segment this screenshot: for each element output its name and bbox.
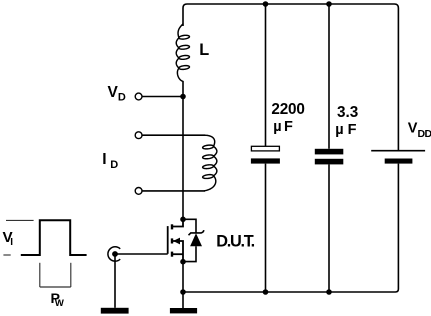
- waveform VI baseline stub: [3, 254, 10, 256]
- wire VD: [142, 96, 183, 98]
- svg-text:L: L: [199, 41, 209, 59]
- waveform VI high-level reference: [6, 219, 34, 221]
- ground GND2 (source): [170, 308, 197, 313]
- pulse width tick right: [70, 263, 72, 287]
- transistor Q1 D.U.T. (power MOSFET): [168, 219, 183, 261]
- wire gate: [115, 253, 168, 255]
- wire source to bottom bus: [182, 262, 184, 292]
- node source: [180, 259, 186, 265]
- inductor L: [176, 24, 189, 82]
- wire ground stub (source): [182, 292, 184, 308]
- node bottom-left junction: [180, 289, 186, 295]
- terminal ID bottom: [135, 188, 142, 195]
- node drain: [180, 217, 186, 223]
- node C2 top: [326, 1, 332, 7]
- svg-text:VI: VI: [3, 229, 14, 248]
- svg-text:PW: PW: [51, 291, 64, 309]
- svg-text:VD: VD: [108, 84, 126, 104]
- wire bottom bus: [183, 286, 398, 292]
- current sense coil (ID pickup): [203, 135, 217, 191]
- svg-text:VDD: VDD: [408, 120, 431, 140]
- body diode D1 (zener-style): [183, 219, 204, 261]
- ground GND1 (generator): [101, 308, 129, 314]
- wire drain branch: [182, 81, 184, 217]
- svg-text:D.U.T.: D.U.T.: [216, 232, 255, 250]
- wire ID top: [142, 134, 205, 136]
- wire top bus: [183, 4, 398, 150]
- svg-text:3.3: 3.3: [337, 104, 358, 121]
- wire ID bottom: [142, 190, 205, 192]
- svg-text:ID: ID: [102, 151, 118, 171]
- terminal VD: [135, 93, 142, 100]
- svg-text:µ F: µ F: [335, 122, 356, 138]
- waveform VI pulse: [21, 220, 87, 255]
- node C1 bottom: [263, 289, 269, 295]
- pulse generator V1: [108, 247, 120, 261]
- svg-text:µF: µF: [273, 119, 295, 135]
- pulse width tick left: [39, 263, 41, 287]
- capacitor C1 2200uF: [251, 4, 280, 292]
- terminal ID top: [135, 132, 142, 139]
- battery VDD: [371, 151, 425, 286]
- node C2 bottom: [326, 289, 332, 295]
- capacitor C2 3.3uF: [315, 4, 344, 292]
- svg-text:2200: 2200: [271, 101, 304, 118]
- wire generator to ground: [114, 254, 116, 308]
- node C1 top: [263, 1, 269, 7]
- pulse width dimension line: [40, 286, 71, 288]
- node VD junction: [180, 94, 186, 100]
